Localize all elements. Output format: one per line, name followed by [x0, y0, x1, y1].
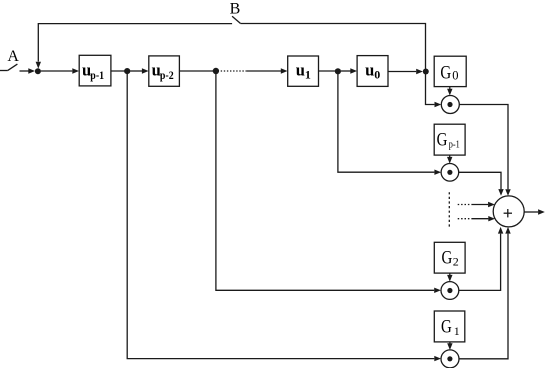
summer — [493, 196, 524, 227]
svg-text:0: 0 — [452, 68, 458, 82]
arrow G_0 to multiplier M1 — [447, 87, 452, 96]
svg-text:1: 1 — [454, 324, 460, 338]
svg-text:p-1: p-1 — [449, 140, 460, 151]
wire M2 to summer top — [459, 172, 504, 196]
wire junction 3 to u_0 — [341, 68, 357, 73]
multiplier M2 — [441, 164, 459, 182]
wire tap from junction 2 down to M3 — [216, 74, 441, 293]
switch A — [0, 64, 17, 70]
gain G_0 — [434, 56, 466, 86]
switch B blade — [232, 16, 240, 23]
wire u_1 to junction 3 — [319, 70, 339, 72]
node A junction dot — [35, 68, 41, 74]
wire tap from junction 3 down to M2 — [338, 74, 441, 175]
svg-text:0: 0 — [374, 67, 380, 81]
svg-text:A: A — [7, 48, 19, 65]
register u_p-2 — [149, 56, 180, 86]
dashed arrow 1 into summer — [458, 202, 495, 207]
wire input arrow into node A — [20, 68, 36, 73]
svg-text:2: 2 — [453, 254, 459, 268]
gain G_p-1 — [434, 124, 465, 155]
svg-text:p-2: p-2 — [160, 68, 174, 82]
node B junction dot — [423, 69, 429, 75]
svg-text:u: u — [296, 61, 305, 80]
multiplier M4 — [441, 350, 459, 368]
svg-text:G: G — [440, 62, 451, 83]
wire u_0 to node B — [388, 69, 423, 74]
multiplier M3 — [441, 282, 459, 300]
svg-text:B: B — [230, 0, 241, 17]
multiplier M1 — [441, 96, 459, 114]
register u_0 — [357, 56, 388, 87]
wire summer output — [524, 209, 545, 214]
junction 2 dot — [213, 68, 219, 74]
junction 1 dot — [124, 68, 130, 74]
arrow G_1 to multiplier M4 — [447, 342, 452, 350]
wire feedback top line right segment down to node B — [240, 24, 434, 105]
arrow G_2 to multiplier M3 — [447, 273, 452, 282]
wire node A to u_p-1 — [41, 68, 79, 73]
svg-text:u: u — [365, 61, 374, 80]
wire tap from junction 1 down to M4 — [127, 74, 441, 361]
gain G_2 — [434, 242, 465, 273]
wire u_p-2 to junction 2 — [179, 70, 216, 72]
gain G_1 — [434, 311, 465, 342]
wire feedback top line left segment with corner down to node A — [36, 24, 233, 69]
wire dotted segment after junction 2 — [221, 70, 247, 72]
vertical ellipsis dashed line — [448, 192, 450, 228]
wire junction 1 to u_p-2 — [130, 68, 149, 73]
junction 3 dot — [335, 68, 341, 74]
wire M1 to summer top — [459, 105, 510, 196]
svg-text:p-1: p-1 — [90, 68, 104, 82]
dashed arrow 2 into summer — [458, 216, 495, 221]
register u_1 — [288, 56, 319, 86]
wire M4 to summer bottom — [459, 227, 511, 359]
wire M3 to summer bottom — [459, 227, 504, 291]
arrowhead into multiplier M1 — [435, 102, 442, 107]
svg-text:1: 1 — [305, 67, 311, 81]
svg-text:G: G — [437, 130, 448, 151]
svg-text:G: G — [442, 247, 453, 268]
wire u_p-1 to junction 1 — [111, 70, 127, 72]
svg-text:G: G — [441, 317, 452, 338]
wire solid segment with arrow into u_1 — [246, 68, 287, 73]
arrow G_p-1 to multiplier M2 — [447, 155, 452, 164]
register u_p-1 — [79, 55, 111, 86]
